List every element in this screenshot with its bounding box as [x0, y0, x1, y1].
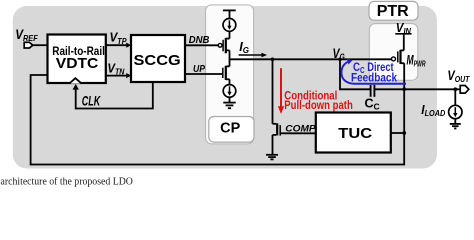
svg-text:architecture of the proposed L: architecture of the proposed LDO	[1, 176, 134, 187]
svg-text:SCCG: SCCG	[134, 52, 181, 69]
svg-text:VDTC: VDTC	[56, 55, 99, 72]
svg-text:CP: CP	[220, 121, 240, 137]
svg-text:Pull-down path: Pull-down path	[284, 100, 353, 112]
svg-text:Feedback: Feedback	[351, 72, 398, 84]
svg-text:PTR: PTR	[377, 3, 409, 20]
svg-text:COMP: COMP	[285, 123, 316, 134]
svg-text:DNB: DNB	[189, 34, 210, 46]
svg-text:UP: UP	[193, 63, 206, 75]
svg-text:TUC: TUC	[338, 126, 372, 142]
svg-text:CLK: CLK	[82, 93, 101, 109]
